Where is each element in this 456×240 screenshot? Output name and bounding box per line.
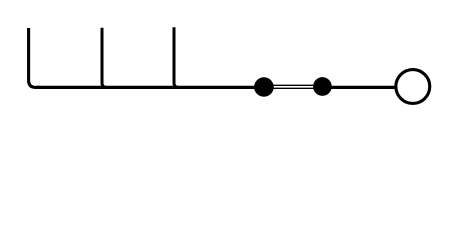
branch wire 1 (left vertical with rounded corner into baseline) (29, 28, 40, 87)
double wire between nodes (lower strand) (262, 87, 324, 89)
baseline wire right segment (330, 86, 395, 89)
double wire between nodes (upper strand) (262, 84, 324, 86)
branch wire 2 (middle vertical with hook into baseline) (102, 28, 107, 88)
node dot 2 (filled junction) (313, 77, 332, 96)
terminal open circle (396, 70, 430, 104)
baseline wire left segment (36, 86, 256, 89)
branch wire 3 (right vertical with hook into baseline) (174, 27, 179, 87)
node dot 1 (filled junction) (254, 77, 274, 97)
